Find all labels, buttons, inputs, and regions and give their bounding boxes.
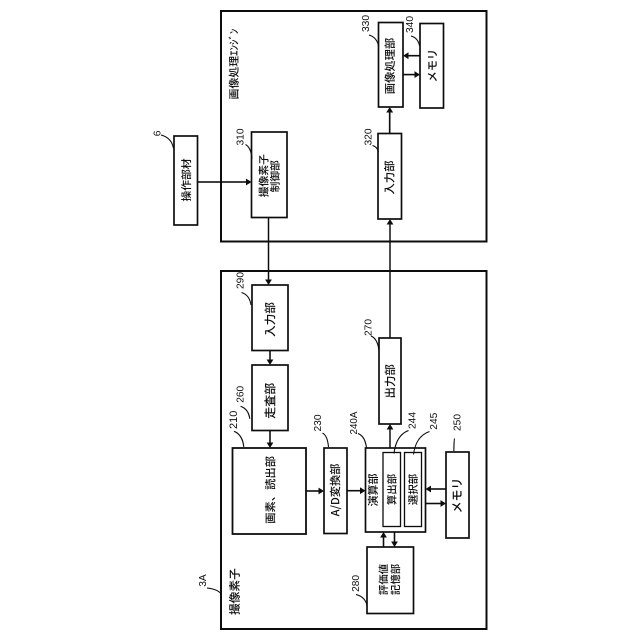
leader line for 320 [373, 146, 379, 153]
reference numeral 210 [228, 411, 240, 429]
block 244 算出部 (calculation unit) [383, 453, 401, 527]
leader line for 270 [371, 336, 379, 350]
svg-text:340: 340 [405, 16, 416, 33]
label text 画素、読出部 (210) [265, 456, 276, 523]
reference numeral 320 [364, 128, 375, 145]
reference numeral 245 [429, 412, 440, 429]
svg-text:260: 260 [235, 385, 246, 402]
leader line for 240A [358, 434, 367, 448]
wire arrow 310 → 290 (crosses box borders) [265, 218, 272, 286]
wire arrow 240A → 250 (down) [426, 500, 447, 507]
block 270 出力部 (output unit) [379, 338, 401, 424]
wire arrow 230 → 240A [347, 487, 366, 494]
svg-text:230: 230 [313, 414, 324, 431]
wire arrow 340 → 330 (up) [403, 52, 420, 59]
svg-text:245: 245 [429, 412, 440, 429]
svg-text:270: 270 [364, 319, 375, 336]
wire arrow 260 → 210 [267, 431, 274, 449]
wire arrow 210 → 230 [306, 488, 324, 495]
reference numeral 270 [364, 319, 375, 336]
label text 操作部材 [181, 159, 191, 201]
label text 評価値 (line1 of 280) [378, 564, 388, 594]
block 3A outer box 撮像素子 (image sensor) [221, 271, 487, 629]
label text 撮像素子 (line1 of 310) [258, 155, 268, 197]
label text A/D変換部 (230) [330, 464, 341, 516]
svg-text:310: 310 [235, 128, 246, 145]
svg-text:240A: 240A [349, 411, 360, 434]
wire arrow 320 → 330 [386, 107, 393, 134]
reference numeral 260 [235, 385, 246, 402]
block 280 評価値記憶部 (evaluation value storage) [367, 547, 414, 614]
wire arrow 240A → 270 [387, 424, 394, 448]
reference numeral 3A [198, 574, 209, 587]
leader line for 260 [241, 406, 250, 419]
reference numeral 240A [349, 411, 360, 434]
label text 撮像素子 (image sensor title) [229, 569, 240, 615]
svg-text:320: 320 [364, 128, 375, 145]
block 250 メモリ (sensor memory) [446, 452, 469, 538]
block 230 A/D変換部 (A/D converter) [324, 448, 347, 534]
wire arrow 330 → 340 (down) [403, 71, 420, 78]
block 260 走査部 (scanning unit) [252, 365, 288, 431]
label text 出力部 (270) [385, 365, 396, 398]
leader line for 340 [411, 36, 420, 46]
svg-text:3A: 3A [198, 574, 209, 587]
block 6 操作部材 (operation member) [174, 136, 198, 225]
leader line for 245 [414, 432, 430, 455]
reference numeral 310 [235, 128, 246, 145]
svg-text:244: 244 [408, 412, 419, 429]
block 340 メモリ (engine memory) [420, 24, 444, 109]
label text 画像処理エンジン (engine title) [228, 29, 238, 99]
label text 入力部 (290) [265, 302, 276, 336]
wire arrow 270 → 320 (crosses box borders) [387, 219, 394, 338]
block 245 選択部 (selection unit) [405, 453, 422, 527]
svg-text:330: 330 [361, 15, 372, 32]
block 240A 演算部 (arithmetic unit) outer box [366, 448, 426, 532]
wire arrow 操作部材6 → 310 [198, 179, 252, 186]
block 210 画素、読出部 (pixel / readout unit) [233, 448, 307, 534]
leader line for 3A [207, 588, 222, 595]
reference numeral 244 [408, 412, 419, 429]
leader line for 290 [242, 293, 252, 306]
wire arrow 290 → 260 [267, 351, 274, 366]
svg-text:290: 290 [236, 272, 247, 289]
leader line for 210 [234, 431, 244, 447]
block 330 画像処理部 (image processing unit) [379, 23, 404, 108]
block outer box 画像処理エンジン (image processing engine) [221, 11, 487, 242]
leader line for 6 [161, 135, 174, 149]
label text 画像処理部 (330) [384, 38, 395, 94]
label text 走査部 (260) [264, 383, 275, 418]
svg-text:250: 250 [452, 414, 463, 431]
leader line for 280 [356, 595, 367, 606]
leader line for 310 [246, 145, 253, 160]
reference numeral 280 [351, 575, 362, 592]
label text 記憶部 (line2 of 280) [390, 564, 400, 594]
reference numeral 6 [152, 130, 163, 136]
label text 演算部 (240A) [368, 474, 378, 506]
reference numeral 340 [405, 16, 416, 33]
label text メモリ (340) [428, 51, 437, 81]
block 320 入力部 (input unit of engine) [378, 134, 402, 220]
label text 算出部 (244) [387, 474, 397, 505]
leader line for 330 [369, 35, 379, 47]
wire arrow 280 → 240A (right) [380, 532, 387, 547]
svg-text:280: 280 [351, 575, 362, 592]
reference numeral 330 [361, 15, 372, 32]
leader line for 230 [323, 433, 329, 447]
label text 制御部 (line2 of 310) [270, 161, 280, 192]
wire arrow 240A → 280 (left) [391, 532, 398, 547]
leader line for 250 [453, 439, 456, 452]
svg-text:210: 210 [228, 411, 240, 429]
label text メモリ (250) [452, 480, 462, 512]
block 290 入力部 (input unit of sensor) [252, 285, 288, 351]
leader line for 244 [394, 431, 409, 454]
wire arrow 250 → 240A (up) [426, 486, 447, 493]
block 310 撮像素子制御部 (imaging element control unit) [252, 132, 288, 218]
label text 入力部 (320) [384, 161, 395, 194]
reference numeral 290 [236, 272, 247, 289]
label text 選択部 (245) [408, 474, 418, 505]
reference numeral 250 [452, 414, 463, 431]
reference numeral 230 [313, 414, 324, 431]
